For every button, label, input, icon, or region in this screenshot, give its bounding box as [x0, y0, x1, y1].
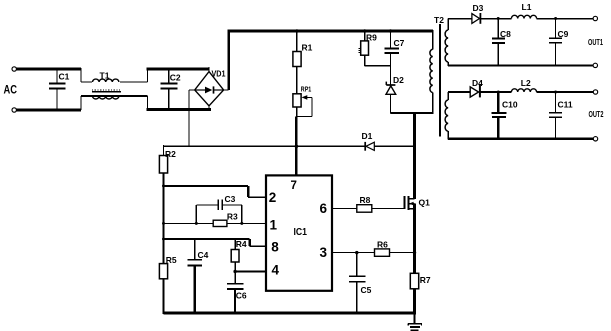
capacitor C11 [555, 92, 557, 113]
svg-text:L1: L1 [522, 2, 532, 12]
wire pin 3 net [332, 252, 375, 254]
transistor Q1 [403, 196, 405, 209]
capacitor C2 [168, 69, 170, 83]
wire T1 top to C2 [120, 81, 148, 83]
transformer T2 primary winding [432, 30, 434, 49]
node AC input terminal top [12, 67, 16, 71]
svg-text:OUT2: OUT2 [589, 110, 604, 119]
capacitor C10 [497, 92, 499, 113]
svg-text:4: 4 [272, 263, 280, 278]
svg-text:R1: R1 [302, 43, 313, 53]
node junction R1 top [295, 29, 298, 32]
node junction C10 tap [497, 91, 500, 94]
node junction C3 left [195, 222, 198, 225]
svg-text:L2: L2 [521, 78, 531, 88]
svg-text:R8: R8 [360, 195, 371, 205]
svg-text:C4: C4 [198, 250, 209, 260]
IC1 [266, 175, 332, 290]
svg-text:D4: D4 [472, 78, 483, 88]
node OUT1 terminal top [593, 16, 597, 20]
svg-text:D3: D3 [473, 3, 484, 13]
svg-text:C10: C10 [502, 100, 518, 110]
wire step down to T1 top winding [80, 68, 82, 82]
wire VD1 right corner up to top rail [223, 89, 229, 91]
bridge rectifier VD1 [195, 72, 224, 106]
wire L2 to OUT2 [537, 91, 594, 93]
svg-text:8: 8 [271, 240, 279, 255]
node AC input terminal bottom [12, 108, 16, 112]
resistor R3 [213, 220, 227, 226]
node junction source/pin3 [413, 251, 416, 254]
wire D2 bottom to primary bottom [391, 112, 433, 114]
svg-text:C6: C6 [236, 291, 247, 301]
wire secondary 1 top [448, 18, 472, 20]
transformer T1 core [92, 89, 121, 91]
capacitor C8 [497, 19, 499, 39]
wire R8 to Q1 gate [372, 207, 405, 209]
wire secondary 2 top [448, 91, 470, 93]
svg-text:3: 3 [320, 245, 328, 260]
wire T1 bottom leads [81, 95, 92, 97]
svg-text:R5: R5 [166, 255, 177, 265]
svg-text:Q1: Q1 [419, 198, 431, 208]
svg-text:C8: C8 [500, 29, 511, 39]
wire mid rail left part [164, 145, 365, 147]
transformer T2 secondary 2 winding [447, 92, 449, 100]
inductor L2 [511, 89, 536, 92]
svg-text:1: 1 [270, 218, 278, 233]
wire secondary 2 bottom rail [448, 138, 593, 140]
node OUT1 terminal bottom [593, 63, 597, 67]
diode D1 [364, 142, 366, 151]
node junction C8 tap [497, 17, 500, 20]
wire Q1 drain vertical [413, 112, 416, 199]
wire VD1 left corner to down vertical [189, 89, 196, 91]
wire RP1 bottom to IC pin 7 [296, 107, 298, 117]
svg-text:2: 2 [269, 190, 277, 205]
capacitor C4 [194, 239, 196, 260]
svg-text:R3: R3 [227, 211, 238, 221]
wire left column [163, 173, 165, 264]
node junction C9 tap [554, 17, 557, 20]
svg-text:T2: T2 [434, 15, 444, 25]
node OUT2 terminal bottom [593, 137, 597, 141]
node junction pin7 wire with mid rail [295, 145, 299, 149]
inductor T1 bottom winding [92, 95, 120, 97]
capacitor C5 [356, 253, 358, 276]
resistor R6 [375, 249, 390, 256]
transformer T2 secondary 1 winding [447, 19, 449, 31]
wire mid rail right part [374, 145, 415, 147]
node junction left column / pin1 [162, 222, 165, 225]
wire R4 rail / pin 8 net [164, 238, 250, 240]
svg-text:6: 6 [320, 201, 328, 216]
svg-text:R2: R2 [165, 149, 176, 159]
transformer T2 core [439, 24, 441, 137]
svg-text:R9: R9 [366, 32, 377, 42]
zener diode D2 [386, 84, 395, 86]
wire D4 to L2 [480, 91, 512, 93]
svg-text:7: 7 [291, 180, 297, 192]
node junction left column / pin2 [162, 184, 165, 187]
svg-text:C5: C5 [361, 285, 372, 295]
wire L1 to OUT1 [537, 18, 593, 20]
node junction C3 right [240, 222, 243, 225]
svg-text:OUT1: OUT1 [588, 38, 603, 47]
capacitor C7 [390, 31, 392, 48]
capacitor C3 parallel branch [195, 205, 197, 224]
wire R6 to source [390, 252, 415, 254]
wire VD1 top stub [208, 67, 210, 73]
wire pin 1 net [164, 222, 214, 224]
wire pin 6 net [332, 207, 357, 209]
node junction C11 tap [554, 91, 557, 94]
node OUT2 terminal top [593, 90, 597, 94]
svg-text:C9: C9 [558, 29, 569, 39]
svg-text:C11: C11 [558, 100, 573, 110]
wire top DC rail [227, 30, 432, 33]
resistor R4 [234, 239, 236, 250]
svg-text:D2: D2 [393, 75, 404, 85]
svg-text:IC1: IC1 [294, 227, 308, 238]
wire AC bottom [17, 109, 81, 112]
resistor R1 [296, 31, 298, 52]
svg-text:RP1: RP1 [301, 85, 312, 94]
capacitor C9 [555, 19, 557, 39]
wire secondary 1 bottom rail [448, 64, 593, 66]
svg-text:C2: C2 [170, 73, 181, 83]
svg-text:C3: C3 [225, 194, 236, 204]
node junction left column / R4 rail [162, 238, 165, 241]
svg-text:C1: C1 [59, 72, 70, 82]
inductor L1 [511, 15, 536, 18]
potentiometer RP1 [293, 94, 301, 107]
node junction R9 top [363, 29, 366, 32]
wire D3 to L1 [480, 18, 511, 20]
resistor R9 [364, 31, 366, 41]
svg-text:VD1: VD1 [212, 70, 226, 79]
wire AC top [17, 68, 81, 71]
resistor R7 [410, 273, 418, 289]
resistor R8 [357, 205, 372, 213]
svg-text:D1: D1 [362, 131, 373, 141]
svg-text:AC: AC [4, 85, 18, 97]
diode D3 [472, 14, 480, 24]
wire R4 bottom to C6 [234, 262, 236, 284]
inductor T1 top winding [93, 79, 119, 82]
capacitor C1 [56, 69, 58, 83]
svg-text:R6: R6 [377, 240, 388, 250]
capacitor C6 [227, 283, 244, 285]
wire VD1 bottom stub [208, 106, 210, 111]
wire pin 4 net [235, 270, 266, 272]
resistor R5 [159, 264, 167, 279]
wire Q1 source vertical [413, 204, 416, 274]
svg-text:C7: C7 [394, 38, 405, 48]
svg-text:R4: R4 [236, 239, 247, 249]
ground [413, 313, 415, 324]
resistor R2 [163, 145, 165, 155]
wire R9 bottom to C7 stem [364, 55, 366, 66]
node junction R4/pin4 [233, 270, 236, 273]
svg-text:T1: T1 [100, 71, 110, 81]
node junction C5 tap [355, 251, 358, 254]
node junction C7 top [389, 29, 392, 32]
wire pin 2 net [164, 185, 249, 187]
svg-text:R7: R7 [420, 275, 431, 285]
diode D4 [470, 87, 478, 97]
wire bottom ground rail [164, 312, 416, 315]
